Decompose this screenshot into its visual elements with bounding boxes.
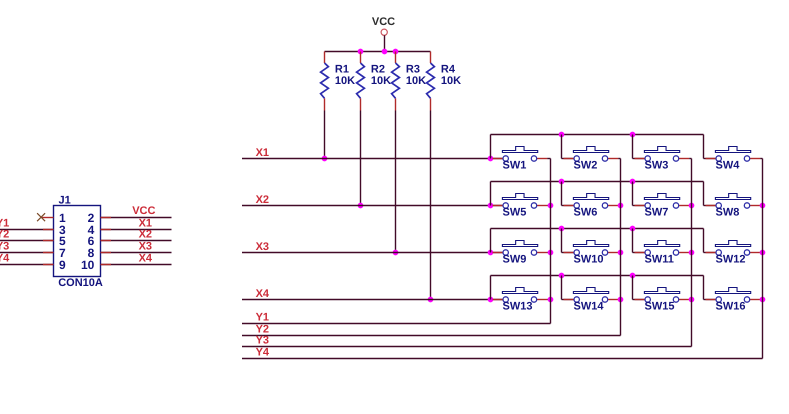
svg-text:SW7: SW7 bbox=[645, 207, 669, 219]
svg-text:SW11: SW11 bbox=[645, 254, 674, 266]
svg-text:9: 9 bbox=[59, 258, 66, 272]
svg-text:Y4: Y4 bbox=[0, 252, 10, 264]
svg-text:SW9: SW9 bbox=[503, 254, 527, 266]
svg-text:SW5: SW5 bbox=[503, 207, 527, 219]
svg-text:J1: J1 bbox=[59, 194, 71, 206]
svg-text:X1: X1 bbox=[256, 147, 269, 159]
svg-text:R3: R3 bbox=[406, 64, 420, 76]
svg-text:R4: R4 bbox=[441, 64, 456, 76]
svg-text:SW13: SW13 bbox=[503, 301, 533, 313]
svg-text:X4: X4 bbox=[256, 288, 270, 300]
svg-text:SW8: SW8 bbox=[716, 207, 740, 219]
svg-text:SW10: SW10 bbox=[574, 254, 604, 266]
svg-text:SW16: SW16 bbox=[716, 301, 746, 313]
svg-text:X3: X3 bbox=[139, 241, 152, 253]
svg-text:10K: 10K bbox=[371, 75, 391, 87]
svg-text:SW6: SW6 bbox=[574, 207, 598, 219]
svg-text:Y3: Y3 bbox=[256, 335, 269, 347]
svg-text:SW2: SW2 bbox=[574, 160, 598, 172]
svg-text:SW3: SW3 bbox=[645, 160, 669, 172]
svg-text:VCC: VCC bbox=[372, 16, 395, 28]
svg-text:SW15: SW15 bbox=[645, 301, 675, 313]
svg-text:X4: X4 bbox=[139, 253, 153, 265]
svg-text:10K: 10K bbox=[335, 75, 355, 87]
svg-text:SW14: SW14 bbox=[574, 301, 605, 313]
svg-text:CON10A: CON10A bbox=[58, 277, 103, 289]
svg-text:X3: X3 bbox=[256, 241, 269, 253]
svg-text:Y1: Y1 bbox=[256, 312, 269, 324]
svg-text:VCC: VCC bbox=[132, 205, 155, 217]
svg-text:SW1: SW1 bbox=[503, 160, 527, 172]
svg-text:SW4: SW4 bbox=[716, 160, 741, 172]
svg-text:Y3: Y3 bbox=[0, 240, 9, 252]
svg-text:X2: X2 bbox=[256, 194, 269, 206]
svg-text:Y2: Y2 bbox=[0, 228, 9, 240]
svg-text:X2: X2 bbox=[139, 229, 152, 241]
svg-text:Y4: Y4 bbox=[256, 347, 270, 359]
svg-text:R2: R2 bbox=[371, 64, 385, 76]
svg-text:R1: R1 bbox=[335, 64, 349, 76]
svg-text:10K: 10K bbox=[441, 75, 461, 87]
svg-text:SW12: SW12 bbox=[716, 254, 746, 266]
svg-text:10K: 10K bbox=[406, 75, 426, 87]
svg-text:10: 10 bbox=[81, 258, 95, 272]
